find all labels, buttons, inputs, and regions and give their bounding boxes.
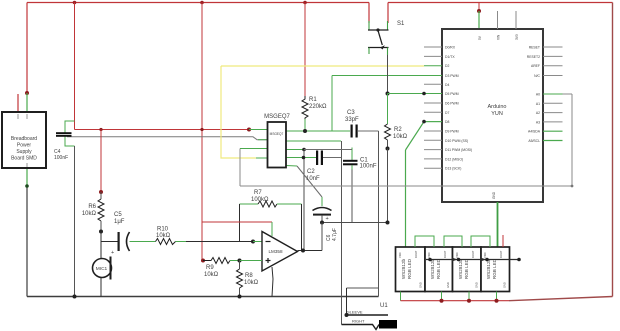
wire green loop LED2-LED3 — [444, 236, 462, 247]
svg-text:A5/SCL: A5/SCL — [528, 139, 540, 143]
svg-text:10kΩ: 10kΩ — [393, 134, 408, 140]
switch S1 — [368, 21, 389, 55]
label C5 1uF — [114, 212, 125, 225]
svg-text:RESET2: RESET2 — [527, 55, 540, 59]
wire C1 bottom down x351 — [351, 165, 353, 222]
wire opamp output row y250.5 — [298, 250, 323, 252]
wire green MSGEQ7 pin3 row — [240, 148, 268, 150]
label S1 — [397, 21, 405, 27]
wire C6 bottom vertical from output row — [321, 223, 323, 251]
wire gray vertical x304 to opamp output — [303, 150, 305, 251]
svg-text:SLEEVE: SLEEVE — [347, 310, 363, 315]
arduino left pins — [422, 47, 442, 168]
label RIGHT — [352, 319, 365, 324]
svg-text:LM358: LM358 — [269, 249, 283, 254]
resistor R10 — [156, 239, 176, 245]
svg-text:D8: D8 — [445, 120, 449, 124]
svg-text:U1: U1 — [380, 303, 388, 309]
svg-text:D2: D2 — [445, 64, 449, 68]
node junction dot 27,93 — [25, 91, 29, 95]
wire +5V top rail left segment — [27, 2, 369, 4]
svg-text:4.7μF: 4.7μF — [332, 228, 338, 241]
svg-text:+: + — [326, 216, 329, 222]
wire green MSGEQ7 right row y149.5 — [286, 149, 304, 151]
wire green loop LED3-LED4 — [471, 236, 490, 247]
wire vertical x387.5 R2 bottom down — [387, 149, 389, 223]
wire diagonal to C6 top — [297, 166, 322, 197]
svg-text:10kΩ: 10kΩ — [244, 280, 259, 286]
node junction dot 479,11 — [477, 9, 481, 13]
node junction dot 496.5,300.7 — [495, 299, 499, 303]
wire green MSGEQ7 left pin4 stub — [256, 157, 268, 159]
audio plug Q1 tip line — [347, 314, 389, 316]
wire green MSGEQ7 right row y157.5 — [286, 157, 316, 159]
wire green switch junction down to R2 — [387, 94, 389, 125]
node junction dot rail x73 — [73, 1, 77, 5]
wire green vertical x403 LED1 to diagonal — [405, 150, 407, 247]
svg-text:10kΩ: 10kΩ — [82, 211, 97, 217]
wire gray row to opamp minus — [186, 241, 253, 243]
wire green D8 pin row — [424, 121, 442, 123]
svg-text:1μF: 1μF — [114, 219, 125, 225]
wire green jog C4 bottom — [65, 137, 75, 147]
wire green stub arduino 5V pin — [478, 11, 480, 29]
label C6 4.7uF rotated — [326, 228, 338, 241]
node junction dot rail x305 — [303, 1, 307, 5]
wire red horizontal y129.5 (5V distribution) — [75, 129, 250, 131]
svg-text:D6 PWM: D6 PWM — [445, 102, 459, 106]
node junction dot 73,296.5 — [73, 295, 77, 299]
wire mic bottom lead — [100, 278, 102, 297]
svg-text:R2: R2 — [394, 127, 402, 133]
wire gray horizontal y136.5 C4 bottom to MSGEQ7 — [67, 137, 268, 140]
svg-text:MSGEQ7: MSGEQ7 — [270, 132, 284, 136]
wire green stub into board pin2 — [26, 93, 28, 112]
label C2 10nF — [306, 169, 320, 182]
svg-text:R1: R1 — [309, 97, 317, 103]
wire gray vertical x341 — [341, 141, 343, 325]
wire opamp V- to ground — [272, 267, 273, 297]
wire mic top lead — [100, 232, 102, 259]
svg-text:10kΩ: 10kΩ — [204, 272, 219, 278]
svg-text:GND: GND — [492, 191, 496, 199]
svg-text:DOUT: DOUT — [414, 250, 418, 258]
svg-text:D7: D7 — [445, 111, 449, 115]
svg-text:RESET: RESET — [529, 46, 540, 50]
svg-text:VDD: VDD — [483, 252, 487, 258]
wire signal row y241.5 — [101, 241, 118, 243]
wire red stub board pin1 — [17, 94, 19, 112]
svg-text:D11 PWM (MOSI): D11 PWM (MOSI) — [445, 148, 472, 152]
wire green opamp V+ stub — [271, 222, 273, 236]
node junction dot 305,131 — [303, 129, 307, 133]
wire C6 bottom stub — [321, 216, 323, 223]
svg-text:D3 PWM: D3 PWM — [445, 74, 459, 78]
resistor R8 — [237, 261, 243, 297]
wire yellow horizontal y66 to arduino D2 — [221, 65, 424, 67]
svg-text:RIGHT: RIGHT — [352, 319, 365, 324]
wire red vertical x202 — [201, 3, 203, 261]
wire data chain row — [426, 258, 521, 262]
wire gray vertical x73 to ground rail — [74, 146, 76, 297]
wire green R10 right — [176, 241, 187, 243]
wire green arduino bottom 5V to LED4 — [497, 202, 499, 247]
wire gray row from 304 to C1 top — [304, 149, 352, 151]
wire red vertical x27 to power board — [26, 3, 28, 94]
wire green jog C4 top — [65, 121, 75, 133]
wire green MSGEQ7 right row y165.5 — [286, 165, 297, 168]
arduino bottom pin GND — [492, 191, 496, 199]
wire box bottom y288 — [347, 287, 379, 289]
svg-text:R9: R9 — [206, 265, 214, 271]
svg-text:YUN: YUN — [491, 111, 503, 117]
wire diagonal rail to LED strip — [509, 297, 613, 301]
svg-text:C2: C2 — [307, 169, 315, 175]
resistor R1 — [302, 96, 308, 131]
svg-text:S1: S1 — [397, 21, 405, 27]
node junction dot 322,222.5 — [320, 221, 324, 225]
wire red LED bottom rail — [401, 300, 510, 302]
svg-text:100kΩ: 100kΩ — [251, 197, 269, 203]
wire yellow vertical x221 — [221, 66, 256, 158]
wire green MSGEQ7 left pin1 — [249, 129, 268, 131]
svg-text:WS2812b: WS2812b — [430, 258, 435, 279]
svg-text:VDD: VDD — [455, 252, 459, 258]
svg-text:GND: GND — [503, 282, 507, 288]
node junction dot 387.5,148.5 — [386, 147, 390, 151]
svg-text:D10 PWM (SS): D10 PWM (SS) — [445, 139, 468, 143]
arduino right pin labels — [527, 46, 541, 144]
LED WS2812 block 1 — [396, 247, 426, 292]
svg-text:R7: R7 — [254, 190, 262, 196]
resistor R6 — [98, 192, 104, 232]
node junction dot 249,129.5 red wire end — [247, 128, 251, 132]
wire red vertical x73 from rail to C4 — [74, 3, 76, 130]
svg-text:C5: C5 — [114, 212, 122, 218]
svg-text:DOUT: DOUT — [499, 250, 503, 258]
capacitor C5 polarized — [111, 232, 130, 256]
resistor R7 feedback — [240, 201, 302, 207]
IC Arduino YUN body — [442, 29, 543, 202]
wire right vertical rail — [612, 3, 614, 297]
LED pin micro-labels — [398, 250, 507, 288]
svg-text:Power: Power — [17, 143, 32, 149]
wire red stub LED4 — [502, 235, 504, 247]
svg-text:100nF: 100nF — [54, 155, 68, 161]
node junction dot 303.5,157.5 — [302, 156, 306, 160]
svg-text:Arduino: Arduino — [488, 104, 507, 110]
node junction dot sleeve 345,315 — [345, 313, 349, 317]
wire feedback vertical right x301.5 — [301, 204, 303, 251]
svg-text:R6: R6 — [88, 204, 96, 210]
resistor R9 — [201, 258, 240, 264]
wire green LED1 bottom stub — [400, 292, 402, 301]
svg-text:D12 (MISO): D12 (MISO) — [445, 157, 463, 161]
svg-text:100nF: 100nF — [360, 164, 377, 170]
wire gray vertical x240 from MSGEQ7 pin3 — [239, 149, 241, 187]
wire red stub rail to switch right — [387, 3, 389, 24]
svg-text:D5 PWM: D5 PWM — [445, 92, 459, 96]
svg-text:A2: A2 — [536, 111, 540, 115]
wire gray vertical x378.5 — [378, 131, 380, 297]
node junction dot 304,149.5 — [302, 148, 306, 152]
label R6 10k — [82, 204, 97, 217]
wire green LED3 bottom stub — [468, 292, 470, 301]
svg-text:D4: D4 — [445, 83, 449, 87]
node junction dot rail x202 — [200, 1, 204, 5]
svg-text:RGB LED: RGB LED — [464, 258, 469, 279]
svg-text:WS2812b: WS2812b — [458, 258, 463, 279]
microphone MIC1 — [93, 257, 112, 280]
node junction dot 27,186 — [25, 184, 29, 188]
wire green MSGEQ7 pin row y131 right — [286, 130, 350, 132]
wire green D5 horizontal y93.5 — [388, 93, 443, 95]
svg-text:D9 PWM: D9 PWM — [445, 130, 459, 134]
wire +5V top rail right segment — [388, 2, 613, 4]
wire vertical x345 to sleeve — [346, 288, 348, 315]
wire green C5 to R10 — [130, 241, 156, 243]
svg-text:VIN: VIN — [497, 34, 501, 40]
node junction dot 202,129.5 — [200, 128, 203, 131]
capacitor C2 — [316, 151, 323, 166]
wire green stub board bottom pin — [26, 168, 28, 186]
svg-text:Board SMD: Board SMD — [11, 156, 37, 162]
arduino right pins — [543, 47, 563, 141]
node junction dot 239.5,260.5 — [238, 259, 242, 263]
ground rail bottom — [27, 296, 379, 298]
svg-text:GND: GND — [419, 282, 423, 288]
wire red vertical x305 to R1 — [304, 3, 306, 97]
svg-text:33pF: 33pF — [345, 117, 359, 123]
op-amp U MSGEQ7 body — [268, 122, 287, 168]
node junction dot 387.5,93.5 — [386, 92, 390, 96]
label U1 — [380, 303, 388, 309]
capacitor C6 polarized — [313, 208, 332, 223]
svg-text:MSGEQ7: MSGEQ7 — [264, 114, 290, 120]
wire green into minus input — [253, 241, 262, 243]
svg-text:VDD: VDD — [427, 252, 431, 258]
node junction dot 253,241.5 — [251, 240, 255, 244]
label C3 33pF — [345, 110, 359, 123]
svg-text:C3: C3 — [347, 110, 355, 116]
svg-text:10kΩ: 10kΩ — [156, 233, 171, 239]
arduino left pin labels — [445, 46, 472, 171]
wire green plus input row — [240, 260, 263, 262]
LED WS2812 block 2 — [425, 247, 453, 292]
wire green LED2 bottom stub — [441, 292, 443, 301]
label R1 220k — [309, 97, 327, 110]
label C4 100nF — [54, 149, 68, 161]
svg-text:+: + — [111, 250, 114, 256]
svg-text:DOUT: DOUT — [471, 250, 475, 258]
node junction dot 101,129.5 — [99, 128, 102, 131]
svg-text:WS2812b: WS2812b — [486, 258, 491, 279]
svg-text:220kΩ: 220kΩ — [309, 104, 327, 110]
label R10 10k — [156, 227, 171, 240]
wire C3 right to x378.5 — [358, 130, 379, 132]
svg-text:N/C: N/C — [534, 74, 540, 78]
svg-text:A4/SDA: A4/SDA — [528, 130, 541, 134]
svg-text:RGB LED: RGB LED — [436, 258, 441, 279]
wire green loop LED1-LED2 — [415, 236, 434, 247]
wire black vertical x27 board gnd — [26, 186, 28, 297]
svg-text:GND: GND — [446, 282, 450, 288]
node junction dot 441.5,300.7 — [440, 299, 444, 303]
capacitor C3 — [351, 125, 358, 138]
label R8 10k — [244, 273, 259, 286]
svg-text:A3: A3 — [536, 120, 540, 124]
wire green diagonal to D8 — [406, 122, 425, 150]
node junction dot 239.5,296.5 — [238, 295, 242, 299]
arduino top pins — [478, 11, 519, 40]
svg-text:VDD: VDD — [398, 252, 402, 258]
wire red opamp V+ y222 — [202, 221, 272, 223]
LED WS2812 block 4 — [481, 247, 510, 292]
capacitor C4 — [56, 132, 72, 137]
wire C2 right to x341 area — [323, 157, 342, 159]
node junction dot 303,250.5 output — [301, 249, 305, 253]
wire switch to D5 junction — [387, 55, 389, 94]
svg-text:Breadboard: Breadboard — [11, 136, 37, 142]
label C1 100nF — [360, 158, 377, 170]
svg-text:R8: R8 — [245, 273, 253, 279]
svg-text:RGB LED: RGB LED — [407, 258, 412, 279]
svg-text:GND: GND — [475, 282, 479, 288]
wire feedback vertical left x239.5 — [239, 204, 241, 242]
wire gray vertical x572 from A0 pin — [571, 94, 573, 186]
svg-text:RGB LED: RGB LED — [492, 258, 497, 279]
op-amp LM358 — [262, 232, 298, 272]
wire red vertical x101 — [100, 130, 102, 193]
svg-text:MIC1: MIC1 — [96, 266, 108, 272]
wire green D3 horizontal y75.5 — [332, 75, 442, 77]
svg-text:A1: A1 — [536, 102, 540, 106]
wire red stub rail to switch left — [368, 3, 370, 24]
LED WS2812 block 3 — [453, 247, 482, 292]
label R7 100k — [251, 190, 269, 203]
node junction dot 469,300.7 — [467, 299, 471, 303]
label SLEEVE — [347, 310, 363, 315]
svg-text:R10: R10 — [157, 227, 169, 233]
label R9 10k — [204, 265, 219, 278]
node junction dot 101,192 — [99, 190, 103, 194]
wire gray A0 pin extension — [563, 93, 573, 95]
svg-text:Supply: Supply — [16, 149, 32, 155]
label MSGEQ7 — [264, 114, 290, 120]
node junction dot 101,231.5 — [99, 230, 103, 234]
capacitor C1 — [343, 160, 358, 166]
wire green C6 top stub — [321, 197, 323, 206]
wire gray A0 horizontal overlay — [240, 185, 573, 188]
wire green vertical x332 to R1 bottom row — [331, 76, 333, 132]
svg-text:DOUT: DOUT — [443, 250, 447, 258]
label R2 10k — [393, 127, 408, 140]
svg-text:AREF: AREF — [531, 64, 540, 68]
wire red stub arduino 5V — [478, 3, 480, 12]
wire green LED4 bottom stub — [496, 292, 498, 301]
svg-text:3V3: 3V3 — [515, 34, 519, 40]
svg-text:D0/RX: D0/RX — [445, 46, 456, 50]
wire gray A0 long horizontal y186 — [240, 185, 572, 187]
audio plug body — [342, 320, 398, 330]
wire green C1 top vertical x351 — [351, 148, 353, 161]
svg-text:WS2812b: WS2812b — [401, 258, 406, 279]
wire green MSGEQ7 left pin2 stub — [258, 139, 268, 141]
svg-text:D1/TX: D1/TX — [445, 55, 455, 59]
wire green MSGEQ7 right row y141 — [286, 140, 341, 142]
wire horizontal y222.5 C6 bottom to x387.5 — [322, 222, 388, 224]
resistor R2 — [385, 124, 391, 149]
svg-text:D13 (SCK): D13 (SCK) — [445, 167, 461, 171]
node junction dot 387.5,222.5 — [386, 221, 390, 225]
svg-text:A0: A0 — [536, 93, 540, 97]
power supply board — [2, 112, 46, 168]
